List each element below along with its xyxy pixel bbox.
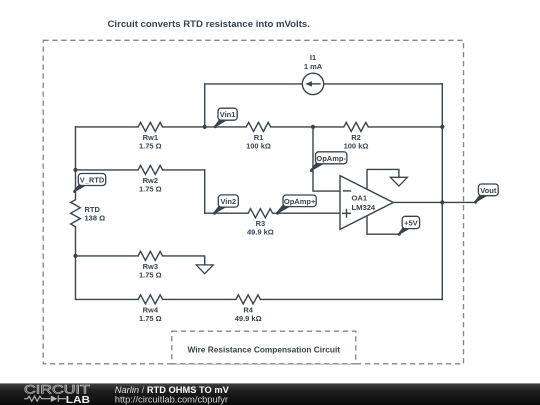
resistor Rw3 1.75 Ω xyxy=(138,251,162,279)
net flag OpAmp+ xyxy=(276,195,316,215)
node at Rw3 row (junction dot) xyxy=(73,254,77,258)
net flag Vin2 xyxy=(213,195,238,215)
net flag +5V xyxy=(398,216,420,235)
op-amp OA1 LM324 xyxy=(340,176,393,230)
svg-text:Circuit converts RTD resistanc: Circuit converts RTD resistance into mVo… xyxy=(108,19,310,30)
svg-text:V_RTD: V_RTD xyxy=(80,176,105,185)
wire: I1 row left segment xyxy=(205,83,303,85)
resistor Rw1 1.75 Ω xyxy=(138,122,162,150)
node Vin1 (junction dot) xyxy=(203,125,207,129)
svg-text:1.75 Ω: 1.75 Ω xyxy=(139,184,162,193)
svg-text:138 Ω: 138 Ω xyxy=(85,214,106,223)
wire: Rw4/R4 row xyxy=(76,298,443,300)
svg-text:OpAmp+: OpAmp+ xyxy=(284,197,316,206)
net flag OpAmp- xyxy=(310,152,347,172)
svg-text:LAB: LAB xyxy=(66,395,90,405)
wire: R3 row to op-amp + xyxy=(205,212,340,214)
wire: right rail xyxy=(441,84,443,300)
svg-text:100 kΩ: 100 kΩ xyxy=(344,141,369,150)
resistor RTD 138 Ω xyxy=(71,200,105,227)
node at R1/R2 junction xyxy=(311,125,315,129)
compensation boundary box xyxy=(43,40,463,364)
svg-text:Vin2: Vin2 xyxy=(220,197,236,206)
svg-text:1.75 Ω: 1.75 Ω xyxy=(139,270,162,279)
CircuitLab footer bar xyxy=(0,383,540,405)
svg-text:+5V: +5V xyxy=(404,219,418,228)
svg-text:http://circuitlab.com/cbpufyr: http://circuitlab.com/cbpufyr xyxy=(115,395,228,405)
svg-text:1 mA: 1 mA xyxy=(304,62,323,71)
resistor Rw4 1.75 Ω xyxy=(138,295,162,323)
wire: left rail upper xyxy=(75,127,77,200)
resistor R4 49.9 kΩ xyxy=(235,295,262,323)
svg-text:100 kΩ: 100 kΩ xyxy=(246,141,271,150)
net flag V_RTD xyxy=(73,174,106,194)
svg-text:Wire Resistance Compensation C: Wire Resistance Compensation Circuit xyxy=(188,345,341,355)
wire: OpAmp- drop from R1/R2 junction xyxy=(313,127,340,191)
svg-text:Vout: Vout xyxy=(480,186,497,195)
svg-text:49.9 kΩ: 49.9 kΩ xyxy=(247,228,274,237)
wire: op-amp V+ pin to ground xyxy=(367,169,399,189)
wire: Rw2 row xyxy=(76,169,205,171)
net flag Vout xyxy=(474,184,498,204)
wire: left rail lower xyxy=(75,227,77,300)
svg-text:1.75 Ω: 1.75 Ω xyxy=(139,141,162,150)
footer logo resistor-diode glyph xyxy=(24,395,66,402)
current source I1 1 mA xyxy=(302,53,323,94)
ground (after Rw3) xyxy=(196,265,213,274)
svg-text:LM324: LM324 xyxy=(352,203,376,212)
node V_RTD (junction dot) xyxy=(73,168,77,172)
wire: I1 row right segment xyxy=(324,83,443,85)
svg-text:OA1: OA1 xyxy=(352,194,368,203)
svg-text:OpAmp-: OpAmp- xyxy=(316,154,346,163)
wire: output xyxy=(393,201,475,203)
wire: op-amp V- pin to +5V xyxy=(367,216,399,234)
wire: I1 row left drop to Vin1 node xyxy=(204,84,206,127)
label box: Wire Resistance Compensation Circuit xyxy=(172,331,356,364)
svg-text:49.9 kΩ: 49.9 kΩ xyxy=(235,314,262,323)
node at R2 right / rail xyxy=(440,125,444,129)
svg-text:Narlin / RTD OHMS TO mV: Narlin / RTD OHMS TO mV xyxy=(115,385,230,395)
svg-text:Vin1: Vin1 xyxy=(220,110,236,119)
wire: Rw3 row to ground xyxy=(76,256,205,265)
net flag Vin1 xyxy=(214,108,237,128)
resistor R2 100 kΩ xyxy=(344,122,369,150)
resistor Rw2 1.75 Ω xyxy=(138,165,162,193)
ground (op-amp V+ pin) xyxy=(390,177,407,186)
wire: Rw1/R1/R2 row xyxy=(76,126,443,128)
resistor R1 100 kΩ xyxy=(246,122,271,150)
svg-text:1.75 Ω: 1.75 Ω xyxy=(139,314,162,323)
wire: Vin2 drop xyxy=(204,170,206,213)
resistor R3 49.9 kΩ xyxy=(247,209,274,237)
node Vout (junction dot) xyxy=(440,200,444,204)
